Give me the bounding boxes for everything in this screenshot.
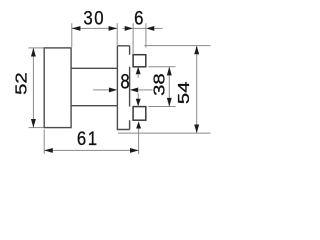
dim 30 line [72,27,117,29]
dim 52 extension line top [29,47,44,49]
dim 6 tail right [154,27,162,29]
dim 38 extension line bottom [148,106,175,108]
svg-text:38: 38 [151,73,168,96]
dim 38 line [168,67,170,107]
dim 61 arrow right [130,148,139,153]
svg-text:61: 61 [77,128,99,149]
dim 6 extension line left [132,23,134,54]
dim 38 extension line top [148,66,175,68]
tab2 bottom arrow up (tip at tab2 bottom, shaft is 61 right extension) [136,121,141,128]
svg-text:30: 30 [83,7,105,28]
dim 30 extension line left [71,23,73,47]
dim 61 arrow left [44,148,53,153]
svg-text:54: 54 [175,81,192,104]
dim 38 arrow top [167,67,172,76]
dim 6 extension line right [145,23,147,47]
svg-text:8: 8 [120,71,129,94]
dim 61 line [44,149,138,151]
tab gap arrow up (tip at tab1 bottom) [136,67,141,74]
dim 6 arrow left (outside, points right) [125,26,133,31]
tab 2 [133,107,146,121]
dim 6 line middle [133,27,146,29]
dim 6 arrow right (outside, points left) [146,26,154,31]
dim 52 extension line bottom [29,127,44,129]
dim 8 arrow right (outside, points left at plate right face) [130,87,138,92]
dim 38 arrow bottom [167,98,172,107]
dim 61 extension line left [43,130,45,154]
knob head [44,48,71,128]
dim 52 arrow top [31,48,36,57]
dim 54 line [196,46,198,134]
back plate [117,46,129,130]
tab 1 [133,55,146,67]
dim 8 arrow left (outside, points right at plate left face) [93,89,109,91]
dim 54 arrow top [194,46,199,55]
dim 54 extension line bottom [118,132,211,134]
tab gap arrow down (tip at tab2 top) [137,93,139,99]
neck top edge [71,67,117,69]
dim 30 arrow right [109,26,118,31]
dim 52 arrow bottom [31,119,36,128]
svg-text:6: 6 [134,7,145,28]
dim 30 extension line right [116,23,118,45]
dim 6 tail left [122,27,125,29]
svg-text:52: 52 [13,72,30,95]
dim 54 extension line top [144,45,210,47]
neck bottom edge [71,105,117,107]
dim 30 arrow left [72,26,81,31]
dim 54 arrow bottom [194,125,199,134]
dim 52 line [32,48,34,128]
